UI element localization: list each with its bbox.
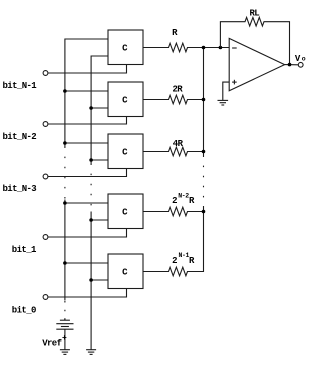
wire op-amp output: [285, 64, 299, 66]
svg-text:bit_N-2: bit_N-2: [3, 132, 37, 142]
wire C4 inputs: [65, 203, 108, 220]
switch C5 box: [108, 254, 143, 289]
wire C5 bit pin: [48, 289, 127, 298]
battery Vref: [56, 318, 73, 349]
wire C2 inputs: [65, 91, 108, 108]
node junction bus1-C3: [63, 141, 67, 145]
switch C1 box: [108, 30, 143, 65]
svg-text:bit_1: bit_1: [12, 245, 37, 255]
node junction bus2-C4: [89, 218, 93, 222]
svg-text:R: R: [172, 28, 178, 38]
resistor R: [143, 43, 229, 52]
svg-text:R: R: [189, 256, 195, 266]
switch C3 box: [108, 134, 143, 169]
wire C2 bit pin: [48, 117, 127, 125]
svg-text:R: R: [189, 196, 195, 206]
node junction bus1-C4: [63, 201, 67, 205]
svg-text:2R: 2R: [173, 85, 184, 95]
node junction bus2-C2: [89, 106, 93, 110]
svg-text:4R: 4R: [173, 139, 184, 149]
resistor 2^(N-2)R: [143, 207, 204, 216]
label 2^(N-1)R: [172, 252, 195, 266]
terminal bit_0: [43, 295, 48, 300]
svg-text:C: C: [122, 208, 128, 218]
wire C5 inputs: [65, 263, 108, 280]
wire C1 inputs: [91, 55, 108, 57]
svg-text:C: C: [122, 44, 128, 54]
terminal Vo: [298, 62, 303, 67]
resistor 2^(N-1)R: [143, 267, 204, 276]
ground under battery: [60, 350, 70, 355]
node junction R-sum: [202, 46, 206, 50]
svg-text:RL: RL: [250, 8, 260, 18]
op-amp U1: [229, 38, 284, 90]
wire Vref bus vertical (bus1): [65, 39, 108, 320]
svg-text:o: o: [302, 56, 306, 63]
wire C1 bit pin: [48, 65, 127, 74]
svg-text:C: C: [122, 96, 128, 106]
svg-text:N-1: N-1: [179, 252, 190, 259]
label 2^(N-2)R: [172, 192, 195, 206]
wire C4 bit pin: [48, 229, 127, 238]
switch C4 box: [108, 194, 143, 229]
node junction bus1-C5: [63, 261, 67, 265]
terminal bit_N-1: [43, 71, 48, 76]
svg-text:bit_N-3: bit_N-3: [3, 184, 37, 194]
resistor 2R: [143, 95, 204, 104]
switch C2 box: [108, 82, 143, 117]
terminal bit_1: [43, 235, 48, 240]
ground op-amp plus: [218, 100, 229, 105]
terminal bit_N-3: [43, 174, 48, 179]
svg-text:bit_N-1: bit_N-1: [3, 81, 38, 91]
svg-text:C: C: [122, 268, 128, 278]
node junction 2R-sum: [202, 98, 206, 102]
svg-text:C: C: [122, 148, 128, 158]
resistor 4R: [143, 147, 204, 156]
resistor RL feedback: [220, 17, 289, 64]
node junction feedback: [219, 46, 223, 50]
node junction 4R-sum: [202, 150, 206, 154]
node junction bus2-C5: [89, 278, 93, 282]
node junction 2n2R-sum: [202, 210, 206, 214]
svg-text:N-2: N-2: [178, 192, 189, 199]
svg-text:2: 2: [172, 196, 177, 206]
wire op-amp plus to ground: [223, 82, 229, 100]
svg-text:bit_0: bit_0: [12, 306, 36, 316]
wire C3 bit pin: [48, 169, 127, 177]
label Vo: [295, 54, 306, 64]
svg-text:+: +: [62, 334, 67, 343]
svg-text:2: 2: [172, 256, 177, 266]
node junction output-feedback: [288, 63, 292, 67]
wire C3 inputs: [65, 143, 108, 160]
ground under bus2: [86, 350, 96, 355]
terminal bit_N-2: [43, 122, 48, 127]
svg-text:Vref: Vref: [42, 338, 61, 348]
wire summing bus vertical: [188, 48, 204, 272]
node junction bus2-C3: [89, 158, 93, 162]
node junction bus1-C2: [63, 89, 67, 93]
wire ground bus vertical (bus2): [91, 56, 108, 350]
